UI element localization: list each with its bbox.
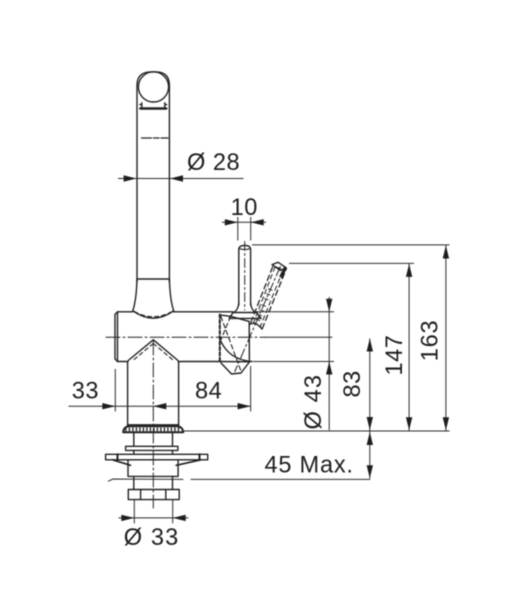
lever tip end face <box>282 268 286 277</box>
body centerline <box>106 336 265 338</box>
bracket diagonals <box>113 460 202 466</box>
svg-text:Ø 33: Ø 33 <box>124 525 180 551</box>
dim line Ø43 vertical <box>328 297 330 430</box>
svg-text:Ø 28: Ø 28 <box>187 150 240 176</box>
svg-text:83: 83 <box>340 370 366 397</box>
svg-text:10: 10 <box>231 195 258 221</box>
valve left dashed edge <box>219 315 221 363</box>
handle pin <box>239 245 251 305</box>
dim Ø28 line <box>118 178 244 180</box>
arrows Ø33 <box>121 515 134 521</box>
base flange <box>123 425 183 432</box>
dim line 163 vertical <box>445 245 447 430</box>
nut <box>128 490 179 500</box>
body bottom line <box>118 361 253 363</box>
arrows 147 <box>406 264 412 277</box>
valve bell under pin <box>229 303 261 318</box>
arrows 83 <box>367 339 373 352</box>
V funnel solid <box>128 340 179 363</box>
ext line pin top (163) <box>252 244 450 246</box>
valve cartridge block <box>220 315 250 362</box>
pin centerline <box>244 242 246 311</box>
dim 10 line + ext lines <box>222 217 266 241</box>
bracket bar with tabs <box>106 454 208 460</box>
arrows Ø28 <box>124 175 137 181</box>
spout vertical centerline <box>152 341 154 508</box>
washer <box>126 446 178 450</box>
shank upper <box>134 433 173 455</box>
dim 33/84 line + ext lines <box>69 366 251 412</box>
lever hatch marks <box>258 286 272 321</box>
svg-text:45 Max.: 45 Max. <box>265 453 354 479</box>
arrows 33/84 <box>102 403 115 409</box>
ext line lever tip (147) <box>289 262 414 264</box>
downpipe <box>128 363 179 426</box>
lever left dashed edge <box>251 265 274 323</box>
lever axis centerline <box>235 267 280 372</box>
lever left inner dashed <box>253 266 275 324</box>
lever right inner dashed <box>260 267 284 327</box>
svg-text:Ø 43: Ø 43 <box>301 374 327 430</box>
countertop bottom line <box>108 479 370 481</box>
bracket column <box>128 460 178 476</box>
dim line 147 vertical <box>408 264 410 431</box>
svg-text:147: 147 <box>382 335 408 376</box>
svg-text:163: 163 <box>418 320 444 362</box>
countertop top line <box>183 430 450 432</box>
shank lower <box>134 476 173 489</box>
arrows 163 <box>443 246 449 259</box>
arrows 10 <box>225 219 238 225</box>
lever right dashed edge <box>262 269 286 329</box>
spout collar <box>140 103 167 109</box>
ext lines body top/bottom right <box>253 312 334 362</box>
saddle arc solid <box>133 311 174 318</box>
tube joint line <box>137 278 169 280</box>
svg-text:84: 84 <box>195 378 222 404</box>
lever base collar <box>250 323 263 329</box>
tube break dashed line <box>142 137 169 139</box>
svg-text:33: 33 <box>72 378 99 404</box>
bracket tab dividers <box>118 454 200 460</box>
arrows 45max <box>367 432 373 445</box>
valve dashed diagonals <box>220 317 242 373</box>
spout tube <box>137 72 169 282</box>
arrows Ø43 <box>326 299 332 312</box>
saddle arc dashed <box>135 312 173 317</box>
valve wedge below body <box>221 362 249 374</box>
V funnel dashed inner <box>132 344 174 362</box>
cone sides <box>133 279 174 311</box>
dim Ø33 line + ext lines <box>119 500 189 524</box>
spout head circle <box>138 72 168 102</box>
dim line 83 / 45max vertical <box>369 339 371 479</box>
lever tip cap <box>272 262 286 270</box>
body left end cap <box>115 312 118 362</box>
valve interior curve <box>221 342 249 362</box>
body top line <box>118 311 234 313</box>
pin cap line <box>239 248 250 251</box>
